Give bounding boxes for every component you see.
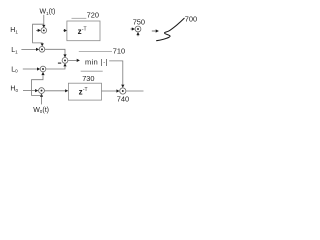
arrow stub into M6 bottom xyxy=(137,35,139,36)
multiplier M4 xyxy=(39,88,45,94)
arrow into M2 top xyxy=(41,43,44,46)
arrow into A1 bottom xyxy=(63,63,66,66)
wire W1 branch to L1 row xyxy=(33,24,44,43)
arrow stub into M6 left xyxy=(131,28,132,30)
leader 720 xyxy=(72,17,87,19)
multiplier M2 xyxy=(39,47,45,53)
junction W0 branch xyxy=(41,95,43,97)
wire min to M5 xyxy=(109,61,123,85)
svg-text:710: 710 xyxy=(113,47,125,56)
wire W0 branch to L0 row xyxy=(32,75,44,95)
wire M3 to adder A1 bottom xyxy=(46,66,65,69)
arrow into M3 bottom xyxy=(41,72,44,75)
wire 730 to M5 xyxy=(102,90,117,92)
arrow into A1 top xyxy=(63,54,66,57)
multiplier M6 xyxy=(135,26,141,32)
wire H0 xyxy=(23,90,35,92)
wire M4 to delay box 730 xyxy=(45,90,66,92)
leader 730 xyxy=(81,70,103,72)
wire L0 xyxy=(23,68,37,70)
multiplier M1 xyxy=(41,28,47,34)
arrow into M5 top xyxy=(121,85,124,88)
arrow H1 into M1 xyxy=(36,29,38,31)
arrow M6 output xyxy=(152,30,156,32)
multiplier M3 xyxy=(40,66,46,72)
pointer squiggle 700 xyxy=(157,18,185,40)
delay box U730 z^-T xyxy=(68,83,101,100)
svg-text:700: 700 xyxy=(185,14,197,23)
wire L1 xyxy=(21,48,36,50)
wire W1 vertical drop xyxy=(43,15,45,25)
adder A1 xyxy=(62,58,68,64)
svg-text:-T: -T xyxy=(83,87,88,93)
svg-text:730: 730 xyxy=(82,74,94,83)
wire W0 vertical rise xyxy=(41,95,43,104)
wire M2 to adder A1 xyxy=(45,49,65,54)
multiplier M5 xyxy=(120,88,126,94)
svg-text:720: 720 xyxy=(87,11,99,20)
svg-text:min |·|: min |·| xyxy=(85,58,108,67)
svg-text:750: 750 xyxy=(133,18,145,27)
svg-text:740: 740 xyxy=(117,94,129,103)
arrow into M1 top xyxy=(42,25,45,28)
delay box U720 z^-T xyxy=(67,21,100,41)
arrow M1 to delay box 720 xyxy=(62,30,65,32)
leader 710 xyxy=(79,50,112,52)
svg-text:-T: -T xyxy=(82,27,87,33)
minus sign xyxy=(58,62,61,64)
arrow A1 to min block xyxy=(68,59,76,61)
wire M5 output xyxy=(126,90,144,92)
arrow into M4 bottom xyxy=(40,94,43,97)
